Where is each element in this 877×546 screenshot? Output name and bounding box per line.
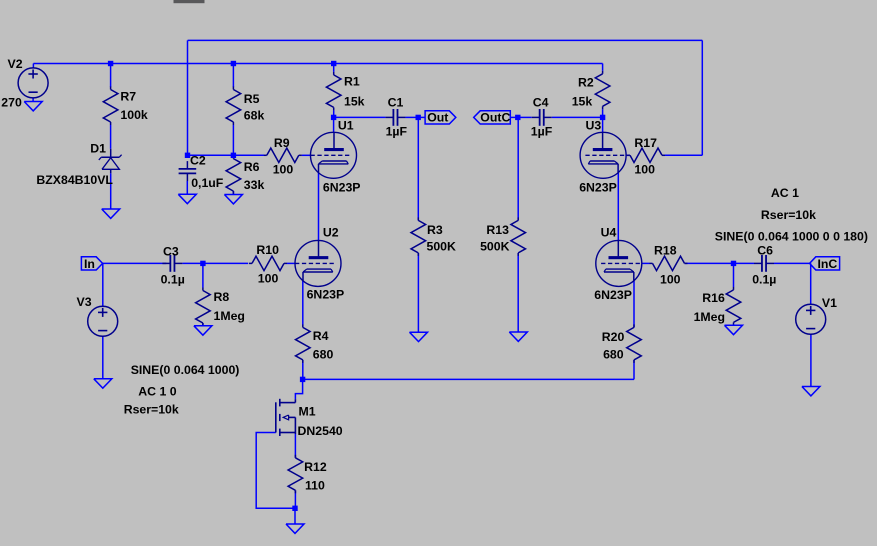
flag Out [425,111,456,124]
wire right vertical x702 top-to-R17 [701,40,703,155]
wire U1 cathode down to U2 plate [318,173,320,241]
svg-text:R16: R16 [702,291,725,305]
svg-text:R2: R2 [578,76,594,90]
svg-text:V3: V3 [77,295,92,309]
svg-text:Out: Out [427,111,448,125]
svg-text:15k: 15k [344,95,365,109]
wire R13 top [517,117,519,220]
wire bottom rail R4-R20 [303,378,634,380]
svg-text:100k: 100k [120,108,148,122]
voltage source V2 [18,68,48,98]
wire R12 node to ground [294,508,296,524]
wire R5 top lead [232,64,234,88]
svg-text:C2: C2 [190,154,206,168]
svg-text:33k: 33k [244,178,265,192]
svg-text:100: 100 [660,272,681,286]
svg-text:R4: R4 [313,329,329,343]
wire left vertical x187 top-to-C2 [187,40,189,155]
wire R2 bottom lead [602,109,604,117]
capacitor C1 [385,116,393,118]
flag InC [810,257,840,270]
resistor R3 [417,217,419,220]
wire U1 plate [333,117,335,132]
svg-text:R6: R6 [244,160,260,174]
svg-text:Rser=10k: Rser=10k [124,402,179,416]
wire R2 top lead [602,64,604,71]
wire R17 to corner [665,154,702,156]
resistor R12 [294,455,296,458]
ground V1 [802,387,820,396]
svg-text:U4: U4 [601,226,617,240]
ground R8 [194,326,212,335]
triode U4 6N23P [596,240,642,286]
flag OutC [474,111,511,124]
wire In node down to V3 [102,263,104,306]
capacitor C6 [754,262,762,264]
wire R6 to ground stub [232,191,234,194]
svg-text:Rser=10k: Rser=10k [761,208,816,222]
triode U3 6N23P [580,132,626,178]
svg-text:500K: 500K [427,239,457,253]
junction OutC node [515,115,520,120]
ground R16 [725,325,743,334]
wire top feedback rail [188,39,703,41]
wire R8 to ground [202,323,204,326]
svg-text:U3: U3 [586,118,602,132]
resistor R16 [733,287,735,290]
voltage source V3 [88,306,118,336]
junction R12-gate node [292,506,297,511]
wire U2 plate entry [318,240,320,242]
wire V2 stub [32,64,34,69]
svg-text:C6: C6 [757,244,773,258]
svg-text:6N23P: 6N23P [323,180,361,194]
capacitor C4 [532,116,540,118]
wire C1 row right [406,116,419,118]
svg-text:15k: 15k [572,95,593,109]
capacitor C2 [186,161,188,169]
resistor R18 [650,262,653,264]
wire R12 to junction [294,490,296,508]
svg-text:R18: R18 [654,244,677,258]
wire M1 source to R12 [294,434,296,458]
wire D1 to ground [110,173,112,209]
ground D1 [102,209,120,218]
svg-text:1Meg: 1Meg [694,310,725,324]
resistor R20 [633,324,635,327]
ground R13 [509,332,527,341]
wire R7 to D1 [110,125,112,149]
svg-text:V2: V2 [8,57,23,71]
svg-text:R13: R13 [486,223,509,237]
wire U4 grid to R18 [642,262,650,264]
wire V2 to ground [32,98,34,102]
wire R4 to junction [302,360,304,380]
triode U1 6N23P [311,132,357,178]
zener diode D1 BZX84B10VL [110,149,112,158]
wire Out stub [418,116,425,118]
wire R8 top [202,263,204,287]
capacitor C3 [162,262,170,264]
triode U2 6N23P [295,240,341,286]
svg-text:R5: R5 [244,92,260,106]
junction R1 top [331,61,336,66]
svg-text:R7: R7 [120,89,136,103]
svg-text:M1: M1 [299,405,316,419]
svg-text:1µF: 1µF [386,125,408,139]
wire C1 row left [334,116,386,118]
ground R3 [410,332,428,341]
svg-text:110: 110 [305,479,325,493]
svg-text:6N23P: 6N23P [579,180,617,194]
junction C3-R8 node [200,261,205,266]
svg-text:R9: R9 [274,136,290,150]
wire R3 bottom [417,253,419,332]
svg-text:500K: 500K [480,239,510,253]
svg-text:BZX84B10VL: BZX84B10VL [36,173,113,187]
wire U3 cathode down to U4 plate [617,173,619,241]
wire R13 bottom [517,253,519,332]
wire R1 top lead [333,64,335,72]
junction C2 node [185,153,190,158]
resistor R4 [302,324,304,327]
wire node row y155 C2-R6 [188,154,234,156]
svg-text:D1: D1 [90,141,106,155]
resistor R1 [333,72,335,75]
svg-text:OutC: OutC [480,111,510,125]
wire V3 to ground [102,336,104,379]
svg-text:R10: R10 [256,243,279,257]
wire C4 row right [552,116,603,118]
ground V3 [94,379,112,388]
svg-text:U2: U2 [323,226,339,240]
svg-text:AC 1 0: AC 1 0 [138,384,176,398]
svg-text:680: 680 [313,348,334,362]
wire R3 top [417,117,419,220]
wire U2 cathode to R4 [302,281,304,325]
junction R4-M1 node [300,377,305,382]
svg-text:100: 100 [273,163,294,177]
svg-text:C1: C1 [388,96,404,110]
wire R1 bottom lead [333,110,335,117]
svg-text:R17: R17 [634,136,657,150]
wire M1 drain jog [295,379,302,399]
wire R5 bottom lead [232,125,234,155]
wire R7 top lead [110,64,112,88]
wire C4 row left [518,116,532,118]
svg-text:InC: InC [818,257,838,271]
svg-text:68k: 68k [244,108,265,122]
flag In [81,257,102,270]
wire R20 bottom lead [633,360,635,380]
wire U3 grid to R17 [626,154,630,156]
svg-text:6N23P: 6N23P [594,288,632,302]
resistor R10 [249,262,252,264]
wire R16 top [733,263,735,287]
svg-text:R12: R12 [304,460,327,474]
svg-text:0,1uF: 0,1uF [191,176,224,190]
junction R1 plate node [331,115,336,120]
resistor R9 [264,154,267,156]
resistor R6 [232,156,234,159]
svg-text:R3: R3 [427,223,443,237]
svg-text:R20: R20 [602,330,625,344]
resistor R13 [517,217,519,220]
svg-text:100: 100 [634,163,655,177]
wire M1 gate loop [256,433,295,509]
ground V2 [24,102,42,111]
wire OutC stub [510,116,518,118]
svg-text:0.1µ: 0.1µ [161,272,185,286]
junction R6 top [231,153,236,158]
svg-text:DN2540: DN2540 [298,424,343,438]
resistor R8 [202,288,204,291]
wire InC node down to V1 [810,263,812,304]
svg-text:SINE(0 0.064 1000): SINE(0 0.064 1000) [131,363,240,377]
junction R5 top [231,61,236,66]
resistor R2 [602,71,604,74]
wire main B+ rail [33,63,602,65]
junction R2 plate node [600,115,605,120]
resistor R7 [110,87,112,90]
svg-text:C4: C4 [533,96,549,110]
wire R18 to junction [685,262,734,264]
voltage source V1 [796,304,826,334]
svg-text:SINE(0 0.064 1000 0 0 180): SINE(0 0.064 1000 0 0 180) [715,229,868,243]
svg-text:1Meg: 1Meg [214,309,245,323]
svg-text:In: In [84,257,95,271]
wire C6 to InC node [774,262,811,264]
wire R6-R9 [233,154,264,156]
wire U3 plate [602,117,604,132]
wire C3 to junction [183,262,203,264]
wire junction to C6 [734,262,755,264]
top dark tab [174,0,205,3]
svg-text:6N23P: 6N23P [307,288,345,302]
resistor R5 [232,87,234,90]
wire R9-U1 grid [302,154,311,156]
resistor R17 [627,154,630,156]
ground R6 [224,195,242,204]
svg-text:C3: C3 [163,244,179,258]
wire junction to R10 [203,262,248,264]
svg-text:100: 100 [258,271,279,285]
wire R10 to U2 grid [287,262,295,264]
ground C2 [178,194,196,203]
svg-text:V1: V1 [822,296,837,310]
svg-text:U1: U1 [338,118,354,132]
wire V1 to ground [810,334,812,386]
nmos M1 DN2540 [294,399,296,402]
junction R16 node [731,261,736,266]
wire In node to C3 [103,262,167,264]
ground R12 node [286,524,304,533]
wire C2 to ground [186,181,188,194]
svg-text:0.1µ: 0.1µ [752,272,776,286]
wire R20 top to U4 cathode [633,281,635,328]
svg-text:AC 1: AC 1 [771,186,799,200]
svg-text:270: 270 [1,96,22,110]
svg-text:R8: R8 [214,290,230,304]
svg-text:R1: R1 [344,74,360,88]
junction Out node [416,115,421,120]
svg-text:1µF: 1µF [531,125,553,139]
junction R7 top [108,61,113,66]
svg-text:680: 680 [603,348,624,362]
